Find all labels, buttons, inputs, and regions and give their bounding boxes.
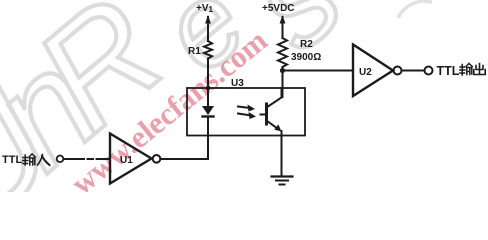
label TTL output: [437, 64, 460, 78]
svg-text:U2: U2: [359, 67, 372, 78]
U2 output bubble: [394, 67, 402, 75]
svg-text:3900Ω: 3900Ω: [291, 52, 321, 63]
phototransistor emitter: [267, 121, 278, 129]
svg-text:+5VDC: +5VDC: [262, 3, 295, 14]
wire U1 output to LED branch: [161, 158, 209, 160]
svg-text:U1: U1: [120, 155, 133, 166]
svg-text:+V1: +V1: [196, 3, 214, 14]
phototransistor base bar: [265, 104, 268, 124]
optocoupler U3 box: [187, 88, 305, 136]
wire bubble to output terminal: [402, 70, 425, 72]
inverter U2: [353, 45, 393, 97]
label +V1: [196, 3, 214, 14]
wire junction to U2 input: [283, 70, 354, 72]
ground: [272, 175, 293, 177]
input terminal: [57, 156, 64, 163]
svg-text:U3: U3: [231, 78, 244, 89]
svg-text:R1: R1: [188, 46, 201, 57]
glyph chu (output): [474, 64, 485, 75]
wire input (dashed section): [64, 158, 111, 160]
wire R1 to box: [207, 60, 209, 106]
glyph shu (input): [23, 154, 36, 165]
pink watermark www.elecfans.com: [64, 22, 273, 201]
resistor R2: [278, 38, 287, 71]
U1 output bubble: [153, 155, 161, 163]
output terminal: [425, 67, 433, 75]
junction dot at box top left crossing: [206, 86, 211, 91]
wire junction down to collector: [282, 71, 284, 98]
label R2: [291, 39, 321, 63]
svg-text:TTL: TTL: [437, 64, 460, 78]
light arrow 2: [238, 114, 251, 116]
light arrow 1: [238, 107, 250, 109]
phototransistor base stub: [261, 114, 266, 116]
label U3: [231, 78, 244, 89]
junction node R2/U2/collector: [280, 68, 285, 73]
svg-text:R2: R2: [300, 39, 313, 50]
power arrow +V1: [207, 17, 209, 41]
glyph ru (input): [38, 155, 50, 166]
inverter U1: [110, 134, 152, 184]
svg-text:TTL: TTL: [2, 154, 22, 166]
glyph shu (output): [460, 64, 473, 76]
label +5VDC: [262, 3, 295, 14]
resistor R1: [204, 41, 212, 60]
label TTL input: [2, 154, 22, 166]
wire emitter to ground: [281, 131, 283, 175]
label R1: [188, 46, 201, 57]
phototransistor collector: [267, 88, 282, 108]
wire LED cathode down to corner: [207, 117, 209, 159]
LED inside U3: [202, 106, 214, 115]
power arrow +5VDC: [282, 17, 284, 38]
